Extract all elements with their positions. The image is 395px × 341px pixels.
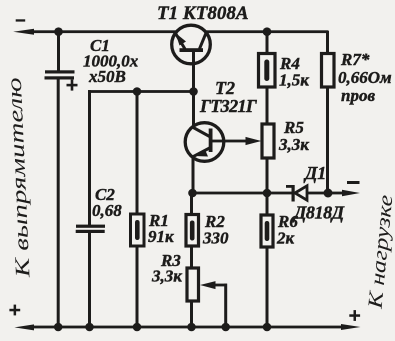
- svg-text:0,66Ом: 0,66Ом: [338, 68, 392, 87]
- resistor R3 (adjustable): [187, 268, 199, 301]
- wire T2 collector lead: [192, 92, 195, 129]
- label T2: [199, 78, 257, 116]
- svg-text:2к: 2к: [276, 229, 295, 248]
- label R7 value: [338, 50, 392, 105]
- wire R1 lower lead: [136, 246, 139, 328]
- label − input (top left): [16, 19, 26, 21]
- node R1 top junction: [133, 87, 142, 96]
- wire R4-R5 link: [266, 87, 269, 124]
- node R6 bottom: [263, 323, 272, 332]
- wire output lead right: [328, 192, 348, 195]
- svg-text:91к: 91к: [148, 227, 174, 246]
- svg-text:пров: пров: [341, 86, 375, 105]
- wire R3 wiper link: [213, 284, 227, 328]
- node R1 bottom: [133, 323, 142, 332]
- node R3 bottom: [187, 323, 196, 332]
- wire T2 emitter lead down: [192, 156, 195, 194]
- label R2 value: [202, 212, 229, 248]
- node C2 bottom: [85, 323, 94, 332]
- svg-text:Д1: Д1: [303, 163, 326, 183]
- svg-text:1,5к: 1,5к: [279, 71, 309, 90]
- wire R7 branch from top rail: [326, 31, 329, 54]
- label R4 value: [279, 54, 309, 90]
- wire output node horizontal (y=193): [193, 192, 293, 195]
- svg-text:Д818Д: Д818Д: [292, 203, 345, 223]
- svg-text:Т2: Т2: [215, 78, 235, 98]
- svg-text:R7*: R7*: [340, 50, 370, 69]
- R3 wiper arrow: [200, 281, 216, 289]
- transistor T1: [172, 25, 211, 64]
- label R1 value: [148, 211, 174, 246]
- label C1 value: [83, 36, 139, 86]
- label + output (bottom right): [349, 310, 360, 321]
- R5 wiper arrow: [246, 137, 262, 145]
- node R4 top junction: [263, 27, 272, 36]
- node T1 base junction: [189, 87, 198, 96]
- svg-text:х50В: х50В: [88, 67, 126, 86]
- wire R4 upper lead: [266, 31, 269, 54]
- node C1 top junction: [54, 27, 63, 36]
- svg-text:3,3к: 3,3к: [278, 135, 309, 154]
- output terminal arrow bottom (plus, to load): [341, 324, 361, 330]
- label R5 value: [278, 118, 309, 154]
- wire R2 upper lead: [190, 193, 193, 215]
- svg-text:Т1 КТ808А: Т1 КТ808А: [157, 3, 249, 24]
- label − output: [347, 181, 360, 184]
- node C1 bottom: [54, 323, 63, 332]
- node R3 wiper bottom: [221, 323, 230, 332]
- wire T2 base lead to R5 wiper: [211, 140, 251, 143]
- wire bottom rail: [30, 326, 346, 329]
- wire C1 lower lead to bottom rail: [57, 80, 60, 328]
- node R7 output junction: [324, 189, 333, 198]
- wire C2 branch lower: [88, 233, 91, 328]
- svg-text:330: 330: [202, 229, 229, 248]
- resistor R7: [322, 54, 335, 88]
- capacitor C1: [45, 70, 78, 90]
- node R5-R6 junction: [263, 189, 272, 198]
- capacitor C2: [76, 225, 105, 233]
- resistor R6: [261, 215, 273, 247]
- wire R7 lower lead: [326, 87, 329, 194]
- input terminal arrow bottom (to rectifier, plus): [14, 324, 34, 330]
- wire R5 lower lead: [266, 158, 269, 194]
- wire base node horizontal (y=91.5): [88, 90, 195, 93]
- wire C1 upper lead: [57, 31, 60, 71]
- wire top rail left segment: [30, 30, 176, 33]
- resistor R1: [131, 214, 145, 246]
- wire T1 base lead down: [192, 51, 195, 93]
- transistor T2: [185, 123, 224, 162]
- wire C2 branch upper: [88, 90, 91, 225]
- label + input (bottom left): [9, 305, 20, 316]
- wire diode to output node: [307, 192, 329, 195]
- resistor R5 (adjustable): [262, 124, 274, 158]
- node T2 emitter junction: [188, 189, 197, 198]
- wire R1 upper lead: [136, 92, 139, 215]
- svg-text:0,68: 0,68: [92, 201, 122, 220]
- label C2 value: [92, 185, 122, 220]
- input terminal arrow top (to rectifier, minus): [13, 29, 34, 35]
- wire R6 upper lead: [266, 193, 269, 215]
- label R6 value: [276, 212, 298, 248]
- label R3 value: [151, 251, 182, 286]
- resistor R2: [186, 215, 199, 247]
- resistor R4: [259, 54, 276, 88]
- svg-text:3,3к: 3,3к: [151, 267, 182, 286]
- wire R6 lower lead: [266, 247, 269, 328]
- wire top rail right segment: [206, 30, 329, 33]
- svg-text:ГТ321Г: ГТ321Г: [199, 96, 257, 116]
- zener diode D1: [286, 185, 307, 202]
- wire R3 lower lead: [190, 301, 193, 328]
- output terminal arrow (minus, to load): [342, 190, 360, 196]
- wire R2-R3 link: [190, 246, 193, 268]
